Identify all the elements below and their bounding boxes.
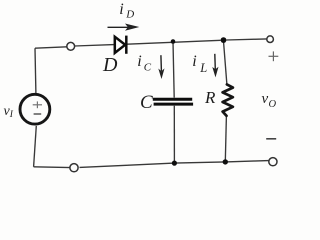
svg-text:R: R <box>204 88 216 107</box>
svg-text:i: i <box>192 53 196 70</box>
svg-text:O: O <box>269 99 277 110</box>
svg-text:v: v <box>262 91 269 107</box>
svg-text:i: i <box>137 53 141 70</box>
svg-text:C: C <box>144 62 152 74</box>
svg-text:D: D <box>102 54 118 76</box>
svg-text:i: i <box>119 1 123 18</box>
svg-text:L: L <box>199 61 207 75</box>
svg-text:D: D <box>125 9 134 21</box>
svg-text:C: C <box>140 92 153 113</box>
svg-text:I: I <box>9 110 14 120</box>
